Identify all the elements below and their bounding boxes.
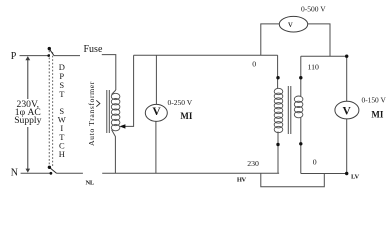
wire top rail: [134, 54, 278, 56]
transformer T2 LV winding: [294, 96, 303, 118]
svg-text:N: N: [11, 168, 18, 179]
wire V3 top lead: [346, 56, 348, 101]
wire HV top lead: [277, 55, 279, 88]
wire V3 bottom lead: [346, 119, 348, 174]
wire LV bottom lead: [300, 118, 302, 174]
wire V1 bottom lead: [155, 121, 157, 173]
switch pole P hinge dot: [48, 47, 51, 50]
switch pole P blade: [49, 49, 54, 56]
wire V2 right lead: [308, 24, 330, 56]
svg-text:H: H: [59, 149, 65, 159]
voltmeter V3 body (0-150 V): [335, 101, 359, 119]
wire bottom rail: [102, 172, 279, 174]
voltmeter V1 body: [145, 104, 167, 121]
svg-text:0-500 V: 0-500 V: [301, 4, 326, 13]
svg-text:Auto Transformer: Auto Transformer: [87, 81, 96, 146]
svg-text:MI: MI: [371, 110, 383, 120]
svg-text:Supply: Supply: [14, 115, 41, 126]
node HV top (0): [276, 76, 279, 79]
wire HV-LV link detour: [261, 173, 325, 186]
voltmeter V2 body (0-500 V): [279, 16, 307, 32]
wire LV rail: [301, 173, 347, 175]
node LV terminal junction: [345, 172, 348, 175]
switch pole N hinge dot: [48, 166, 51, 169]
autotransformer core bars: [107, 90, 110, 133]
node V3 top junction: [345, 55, 348, 58]
wire P line right (to fuse gap): [54, 55, 80, 57]
svg-text:110: 110: [308, 62, 320, 71]
svg-text:V: V: [152, 106, 161, 118]
transformer T2 core bars: [288, 86, 291, 134]
svg-text:0: 0: [252, 60, 256, 69]
svg-text:0-150 V: 0-150 V: [362, 95, 387, 104]
wire LV top lead: [300, 56, 302, 96]
svg-text:LV: LV: [351, 173, 359, 180]
svg-text:230: 230: [247, 159, 259, 168]
svg-text:v: v: [288, 20, 293, 30]
svg-text:P: P: [11, 51, 17, 62]
wire N line right (to NL gap): [57, 172, 83, 174]
node HV bottom (230): [276, 143, 279, 146]
wire wiper riser: [125, 55, 134, 126]
DPST switch dashed linkage: [49, 51, 53, 167]
wire autotransformer entry bend: [112, 90, 116, 95]
supply arrow line: [25, 56, 30, 173]
switch pole N terminal dot: [50, 172, 53, 175]
svg-text:V: V: [343, 105, 352, 117]
svg-text:HV: HV: [237, 177, 247, 184]
node LV bottom (0): [299, 142, 302, 145]
switch pole P terminal dot: [47, 54, 50, 57]
svg-text:T: T: [59, 89, 65, 99]
svg-text:0-250 V: 0-250 V: [168, 98, 193, 107]
fuse F1 right lead: [102, 55, 116, 90]
svg-text:NL: NL: [86, 179, 95, 186]
svg-text:MI: MI: [180, 111, 192, 121]
wire autotransformer bottom lead: [112, 130, 116, 174]
node LV top (110): [299, 76, 302, 79]
autotransformer tap mark arrow: [96, 100, 100, 106]
svg-text:Fuse: Fuse: [84, 44, 103, 55]
switch pole N blade: [49, 167, 56, 173]
autotransformer wiper arrow: [119, 124, 125, 128]
transformer T2 HV winding: [274, 88, 283, 132]
wire HV bottom lead: [277, 132, 279, 174]
wire N line left: [21, 172, 51, 174]
wire V2 left lead: [261, 24, 280, 55]
svg-text:0: 0: [313, 158, 317, 167]
autotransformer winding: [111, 93, 120, 131]
wire 110 rail: [301, 55, 347, 57]
wire V1 top lead: [155, 55, 157, 104]
wire P line left: [20, 55, 49, 57]
